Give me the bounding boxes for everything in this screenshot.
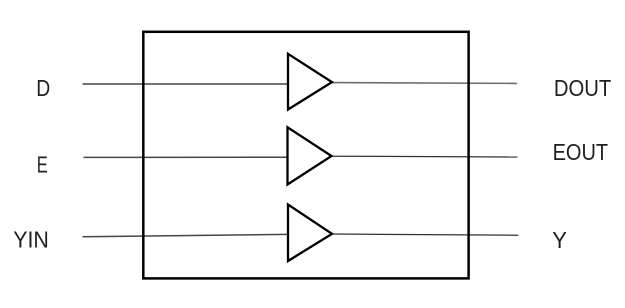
buffer U1A — [288, 54, 332, 110]
svg-text:E: E — [37, 152, 48, 178]
svg-text:Y: Y — [552, 227, 567, 253]
buffer U1B — [288, 127, 332, 184]
wire D input — [83, 83, 289, 85]
svg-text:EOUT: EOUT — [553, 139, 609, 165]
svg-text:YIN: YIN — [13, 226, 49, 252]
wire DOUT output — [332, 82, 517, 85]
svg-text:D: D — [36, 75, 50, 101]
wire Y output — [332, 234, 518, 235]
svg-text:DOUT: DOUT — [554, 75, 611, 101]
wire YIN input — [83, 234, 289, 236]
buffer U1C — [288, 205, 332, 262]
wire E input — [84, 156, 288, 158]
wire EOUT output — [332, 155, 518, 158]
box U1 — [143, 32, 468, 279]
